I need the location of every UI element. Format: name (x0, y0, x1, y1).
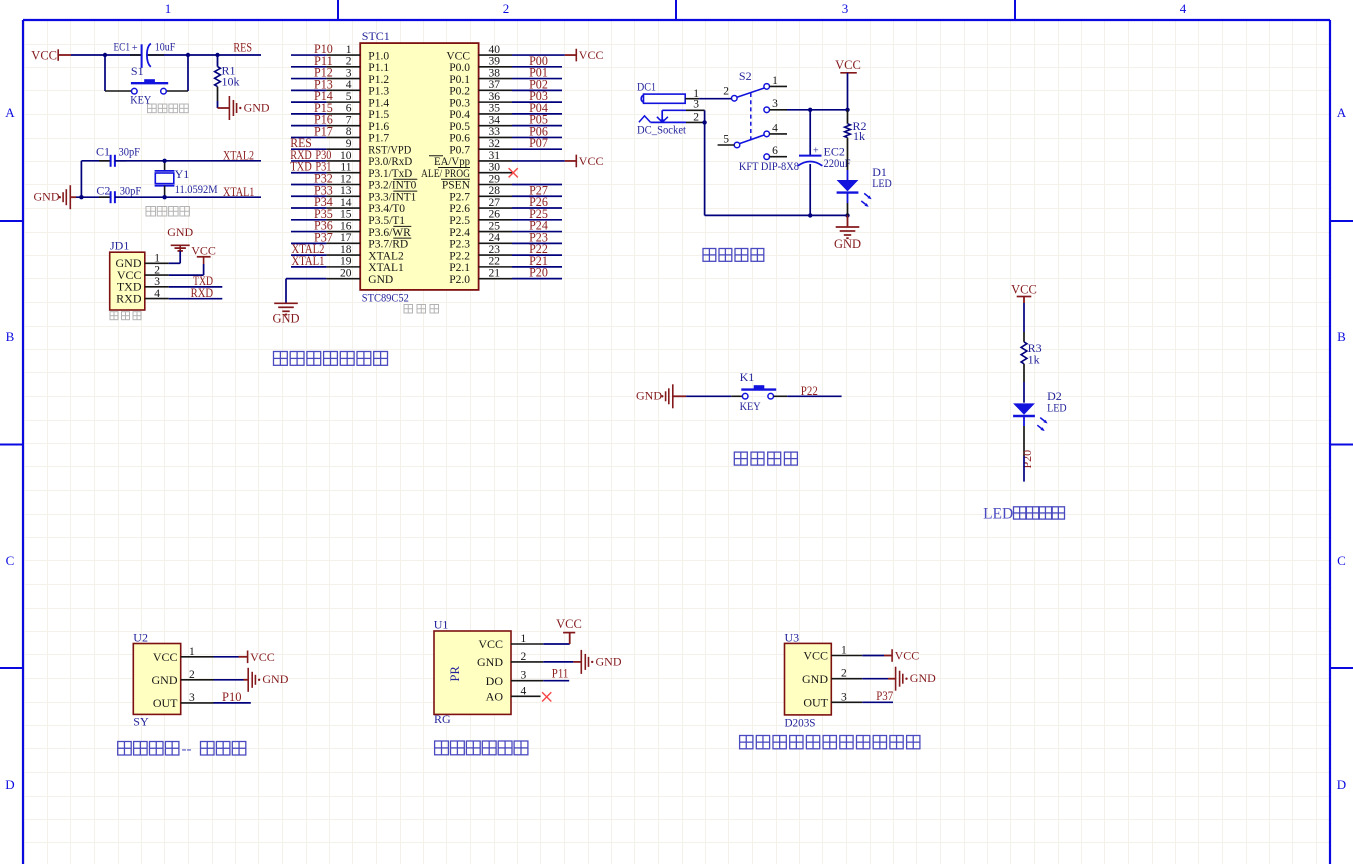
svg-text:P2.5: P2.5 (449, 215, 470, 227)
wire U2 pin2 to GND (214, 679, 244, 681)
LED D1 (837, 165, 892, 215)
power port GND (U1) (573, 650, 621, 674)
svg-text:22: 22 (489, 256, 501, 268)
svg-text:20: 20 (340, 267, 352, 279)
svg-text:3: 3 (346, 67, 352, 79)
svg-text:VCC: VCC (1011, 283, 1037, 297)
svg-text:RST/VPD: RST/VPD (368, 144, 411, 156)
title 单片机最小系统 (274, 352, 288, 366)
svg-text:GND: GND (596, 654, 622, 668)
svg-text:VCC: VCC (446, 50, 470, 62)
svg-text:3: 3 (693, 99, 699, 111)
svg-text:21: 21 (489, 267, 501, 279)
svg-text:GND: GND (802, 672, 828, 686)
resistor R3 1k (1021, 332, 1042, 382)
junction dot DC1 pin2 (702, 120, 706, 124)
svg-text:2: 2 (693, 111, 699, 123)
title LED灯电路 (983, 505, 1064, 522)
no-connect X on U1 pin4 (542, 692, 551, 701)
svg-text:3: 3 (154, 276, 160, 288)
svg-text:4: 4 (154, 288, 160, 300)
svg-text:DC_Socket: DC_Socket (637, 122, 687, 136)
svg-text:30: 30 (489, 162, 501, 174)
svg-text:P2.0: P2.0 (449, 274, 470, 286)
svg-text:40: 40 (489, 44, 501, 56)
svg-text:P37: P37 (876, 689, 893, 703)
svg-text:7: 7 (346, 114, 352, 126)
svg-text:ALE/ PROG: ALE/ PROG (421, 168, 470, 180)
svg-text:P1.2: P1.2 (368, 74, 389, 86)
svg-text:2: 2 (189, 669, 195, 681)
svg-text:RXD: RXD (116, 292, 142, 306)
svg-text:1: 1 (189, 646, 195, 658)
svg-text:EC1: EC1 (114, 40, 131, 54)
svg-text:VCC: VCC (835, 58, 861, 72)
svg-text:C: C (6, 553, 15, 568)
wire XTAL2 (115, 160, 261, 162)
svg-text:GND: GND (167, 225, 193, 239)
svg-text:P20: P20 (529, 266, 548, 280)
title 电源电路 (703, 249, 716, 262)
svg-text:25: 25 (489, 220, 501, 232)
capacitor EC1 10uF (114, 40, 176, 68)
svg-text:P2.2: P2.2 (449, 250, 470, 262)
svg-text:U3: U3 (785, 630, 800, 644)
svg-text:2: 2 (723, 86, 729, 98)
svg-text:3: 3 (772, 98, 778, 110)
svg-text:P2.1: P2.1 (449, 262, 470, 274)
pins 1-4 of JD1 (145, 253, 169, 300)
wire U3 pin3 P37 (862, 701, 893, 703)
svg-text:+: + (813, 146, 819, 157)
ground symbol below MCU (272, 303, 299, 325)
svg-text:P2.4: P2.4 (449, 227, 470, 239)
junction dots on RES wire (103, 53, 220, 57)
svg-text:24: 24 (489, 232, 501, 244)
power port VCC (U3) (884, 649, 919, 663)
svg-text:P3.2/INT0: P3.2/INT0 (368, 180, 416, 192)
power port GND (U3) (888, 667, 936, 691)
switch S2 KFT DIP-8X8 (718, 69, 799, 173)
svg-text:XTAL1: XTAL1 (223, 185, 254, 199)
svg-text:P1.3: P1.3 (368, 86, 389, 98)
crystal Y1 11.0592M (155, 161, 218, 197)
svg-text:GND: GND (834, 237, 861, 251)
wire DC1 pin3 to pin2 and bottom rail (705, 110, 848, 215)
svg-text:32: 32 (489, 138, 501, 150)
svg-text:U1: U1 (434, 618, 449, 632)
svg-text:10: 10 (340, 150, 352, 162)
power port VCC (U2) (239, 650, 275, 664)
svg-text:P2.7: P2.7 (449, 191, 470, 203)
svg-text:1k: 1k (853, 129, 865, 143)
svg-text:DO: DO (486, 674, 504, 688)
svg-text:23: 23 (489, 244, 501, 256)
svg-text:1: 1 (841, 645, 847, 657)
svg-text:P07: P07 (529, 136, 548, 150)
svg-text:TXD: TXD (290, 160, 312, 174)
ground GND (power circuit) (834, 215, 861, 251)
resistor R1 10k (215, 55, 240, 108)
svg-text:VCC: VCC (579, 154, 604, 168)
svg-text:12: 12 (340, 173, 352, 185)
svg-text:AO: AO (486, 690, 504, 704)
power port VCC near JD1 (191, 244, 216, 264)
svg-text:VCC: VCC (803, 649, 828, 663)
resistor R2 1k (845, 110, 867, 180)
svg-text:2: 2 (521, 651, 527, 663)
svg-text:19: 19 (340, 256, 352, 268)
svg-text:P20: P20 (1020, 450, 1034, 469)
power port VCC (pin31) (565, 154, 604, 168)
svg-text:2: 2 (841, 668, 847, 680)
svg-text:P1.4: P1.4 (368, 97, 389, 109)
svg-text:OUT: OUT (803, 695, 828, 709)
svg-text:A: A (1337, 105, 1347, 120)
MCU left pin name overlines (393, 179, 417, 238)
svg-text:VCC: VCC (31, 48, 57, 62)
svg-text:GND: GND (368, 274, 393, 286)
power port VCC (reset circuit) (31, 48, 71, 62)
svg-text:P2.3: P2.3 (449, 239, 470, 251)
wire K1 to P22 (787, 395, 841, 397)
svg-text:C1: C1 (96, 144, 110, 158)
svg-text:P2.6: P2.6 (449, 203, 470, 215)
svg-text:P0.3: P0.3 (449, 97, 470, 109)
svg-text:11: 11 (340, 162, 351, 174)
wire U1 pin3 P11 (543, 680, 569, 682)
svg-text:18: 18 (340, 244, 352, 256)
svg-text:P0.1: P0.1 (449, 74, 470, 86)
svg-text:--: -- (182, 742, 192, 758)
svg-text:34: 34 (489, 114, 501, 126)
svg-text:LED: LED (872, 176, 892, 190)
junction dots on bottom rail (808, 213, 850, 217)
svg-text:Y1: Y1 (175, 167, 190, 181)
svg-text:XTAL2: XTAL2 (223, 148, 254, 162)
wire GND to K1 (686, 395, 731, 397)
svg-text:K1: K1 (740, 370, 755, 384)
svg-text:10uF: 10uF (155, 40, 176, 54)
svg-text:37: 37 (489, 79, 501, 91)
capacitor EC2 220uF (798, 110, 851, 216)
svg-text:A: A (5, 105, 15, 120)
svg-text:3: 3 (841, 691, 847, 703)
svg-text:1: 1 (346, 44, 352, 56)
junction dots (crystal) (79, 159, 167, 200)
power port VCC (LED circuit) (1011, 283, 1037, 303)
svg-text:LED: LED (1047, 401, 1067, 415)
svg-text:P3.5/T1: P3.5/T1 (368, 215, 405, 227)
net labels XTAL2 XTAL1 (292, 242, 325, 268)
svg-text:1k: 1k (1028, 352, 1040, 366)
svg-text:VCC: VCC (250, 650, 275, 664)
svg-text:26: 26 (489, 209, 501, 221)
capacitor C1 30pF (96, 144, 140, 166)
wire VCC to R3 (1023, 303, 1025, 332)
svg-text:RXD: RXD (191, 286, 214, 300)
wires on MCU right pins (512, 55, 565, 279)
overlines EA PSEN PROG (429, 156, 470, 180)
svg-text:PSEN: PSEN (442, 180, 471, 192)
svg-text:16: 16 (340, 220, 352, 232)
U1 pins 1-4 (511, 633, 543, 697)
svg-text:VCC: VCC (153, 650, 178, 664)
svg-text:1: 1 (521, 633, 527, 645)
svg-text:1: 1 (165, 1, 172, 16)
wire VCC to RES net (71, 54, 261, 56)
svg-text:P0.7: P0.7 (449, 144, 470, 156)
connector JD1 (110, 238, 145, 310)
gray annotation 单片机 (404, 305, 413, 314)
svg-text:P3.7/RD: P3.7/RD (368, 239, 408, 251)
power port GND above JD1 (167, 225, 193, 252)
svg-text:14: 14 (340, 197, 352, 209)
svg-text:OUT: OUT (153, 696, 178, 710)
power port VCC (pin40) (565, 48, 604, 62)
svg-text:GND: GND (910, 671, 936, 685)
svg-text:VCC: VCC (579, 48, 604, 62)
svg-text:B: B (1337, 329, 1346, 344)
wire JD1 pin1 to GND (169, 251, 181, 263)
svg-text:31: 31 (489, 150, 501, 162)
svg-text:P1.0: P1.0 (368, 50, 389, 62)
MCU right pins 40-21 (421, 44, 512, 286)
svg-text:B: B (6, 329, 15, 344)
svg-text:VCC: VCC (478, 637, 503, 651)
svg-text:9: 9 (346, 138, 352, 150)
wire MCU pin20 to GND (286, 279, 326, 303)
svg-text:VCC: VCC (556, 617, 582, 631)
power port GND (U2) (244, 668, 289, 692)
svg-text:4: 4 (346, 79, 352, 91)
svg-text:KEY: KEY (740, 399, 761, 413)
wire U3 pin2 to GND (862, 678, 888, 680)
svg-text:5: 5 (346, 91, 352, 103)
module U1 RG (434, 618, 511, 726)
switch S1 KEY (105, 55, 188, 107)
net labels P00-P07 (529, 54, 549, 150)
net labels P10-P17 (314, 42, 334, 138)
svg-text:VCC: VCC (191, 244, 216, 258)
svg-text:10k: 10k (222, 74, 240, 88)
svg-text:4: 4 (772, 122, 778, 134)
svg-text:XTAL1: XTAL1 (368, 262, 404, 274)
svg-text:S2: S2 (739, 69, 752, 83)
svg-text:GND: GND (636, 389, 662, 403)
wire D2 to P20 (1023, 456, 1025, 482)
svg-text:28: 28 (489, 185, 501, 197)
svg-text:8: 8 (346, 126, 352, 138)
net labels P27-P20 (529, 183, 549, 279)
power port VCC (power circuit) (835, 58, 861, 110)
svg-text:KFT DIP-8X8: KFT DIP-8X8 (739, 159, 799, 173)
svg-text:P3.6/WR: P3.6/WR (368, 227, 411, 239)
junction dots on VCC node (808, 108, 850, 112)
svg-text:4: 4 (521, 685, 527, 697)
wires on MCU left pins (291, 55, 326, 267)
svg-text:D: D (1337, 777, 1346, 792)
svg-text:EA/Vpp: EA/Vpp (434, 156, 470, 168)
wire GND to C1/C2 (76, 161, 111, 197)
svg-text:P1.1: P1.1 (368, 62, 389, 74)
svg-text:XTAL1: XTAL1 (292, 254, 325, 268)
svg-text:P0.6: P0.6 (449, 133, 470, 145)
svg-text:+: + (132, 43, 138, 54)
title 光敏检测模块 (435, 741, 449, 755)
svg-text:P10: P10 (222, 690, 242, 704)
net labels TXD P31 (pin11) (290, 160, 331, 174)
svg-text:6: 6 (346, 103, 352, 115)
net labels RXD P30 (pin10) (290, 148, 331, 162)
svg-text:13: 13 (340, 185, 352, 197)
svg-text:36: 36 (489, 91, 501, 103)
svg-text:GND: GND (477, 655, 503, 669)
svg-text:GND: GND (244, 100, 270, 114)
svg-text:27: 27 (489, 197, 501, 209)
svg-text:2: 2 (154, 264, 160, 276)
gray annotation 晶振电路 (146, 207, 156, 217)
svg-text:P0.4: P0.4 (449, 109, 470, 121)
U2 pins 1-3 (181, 646, 214, 704)
power port GND (key circuit) (636, 384, 686, 408)
svg-text:P1.5: P1.5 (368, 109, 389, 121)
module U3 D203S (785, 630, 832, 729)
svg-text:GND: GND (262, 672, 288, 686)
svg-text:17: 17 (340, 232, 352, 244)
svg-text:STC1: STC1 (362, 29, 390, 43)
MCU U: STC1 STC89C52 body (360, 29, 478, 305)
svg-text:4: 4 (1180, 1, 1187, 16)
svg-text:33: 33 (489, 126, 501, 138)
wire TXD (169, 286, 223, 288)
svg-text:P3.0/RxD: P3.0/RxD (368, 156, 412, 168)
svg-text:P3.3/INT1: P3.3/INT1 (368, 191, 416, 203)
wire U2 pin3 P10 (214, 702, 251, 704)
wire JD1 pin2 to VCC (169, 264, 204, 275)
svg-text:GND: GND (272, 311, 299, 325)
svg-text:P17: P17 (314, 124, 333, 138)
svg-text:29: 29 (489, 173, 501, 185)
svg-text:RG: RG (434, 712, 451, 726)
title 按键电路 (734, 452, 747, 465)
svg-text:3: 3 (189, 692, 195, 704)
svg-text:GND: GND (152, 673, 178, 687)
power port GND (crystal circuit) (34, 185, 77, 209)
svg-text:JD1: JD1 (110, 238, 129, 252)
svg-text:D: D (5, 777, 14, 792)
svg-text:P3.1/TxD: P3.1/TxD (368, 168, 412, 180)
module U2 SY (133, 631, 180, 729)
no-connect X on pin30 (509, 168, 518, 177)
MCU left pins 1-20 (326, 44, 416, 286)
svg-text:S1: S1 (131, 64, 144, 78)
svg-text:P1.7: P1.7 (368, 133, 389, 145)
wire S2 pin3 to VCC rail (787, 109, 848, 111)
svg-text:30pF: 30pF (119, 144, 141, 158)
svg-text:15: 15 (340, 209, 352, 221)
svg-text:P11: P11 (552, 667, 569, 681)
capacitor C2 30pF (96, 183, 141, 203)
title 声音检测--数字量 (118, 742, 246, 758)
svg-text:35: 35 (489, 103, 501, 115)
svg-text:3: 3 (521, 670, 527, 682)
svg-text:38: 38 (489, 67, 501, 79)
svg-text:39: 39 (489, 56, 501, 68)
svg-text:3: 3 (842, 1, 849, 16)
svg-text:C: C (1337, 553, 1346, 568)
wire DC1 pin1 to S2 (699, 98, 731, 100)
svg-text:D203S: D203S (785, 716, 816, 730)
switch K1 KEY (731, 370, 787, 413)
wire RXD (169, 298, 223, 300)
svg-text:VCC: VCC (895, 649, 920, 663)
svg-text:P0.5: P0.5 (449, 121, 470, 133)
svg-text:6: 6 (772, 145, 778, 157)
svg-text:1: 1 (154, 253, 160, 265)
DC socket DC1 (637, 80, 705, 137)
svg-text:11.0592M: 11.0592M (175, 182, 218, 196)
svg-text:C2: C2 (96, 183, 110, 197)
wire U1 pin1 to VCC (543, 643, 569, 645)
svg-text:P22: P22 (801, 384, 818, 398)
title 人体热释电红外感应模块 (740, 736, 753, 749)
wire XTAL1 (115, 196, 261, 198)
svg-text:2: 2 (346, 56, 352, 68)
ground GND (reset circuit) (218, 96, 270, 120)
svg-text:SY: SY (133, 714, 149, 728)
svg-text:STC89C52: STC89C52 (362, 290, 409, 304)
svg-text:PR: PR (448, 666, 462, 682)
svg-text:DC1: DC1 (637, 80, 656, 94)
wire R3 to D2 (1023, 382, 1025, 403)
LED D2 (1013, 389, 1067, 456)
svg-text:U2: U2 (133, 631, 148, 645)
wire U2 pin1 to VCC (214, 656, 239, 658)
svg-text:1: 1 (772, 75, 778, 87)
svg-text:P3.4/T0: P3.4/T0 (368, 203, 405, 215)
svg-text:LED: LED (983, 505, 1013, 522)
gray annotation 下载口 (110, 312, 118, 320)
net labels P32-P37 (314, 171, 334, 244)
svg-text:GND: GND (34, 190, 60, 204)
wire U3 pin1 to VCC (862, 655, 884, 657)
svg-text:2: 2 (503, 1, 510, 16)
U3 pins 1-3 (831, 645, 862, 704)
svg-text:5: 5 (723, 133, 729, 145)
svg-text:P1.6: P1.6 (368, 121, 389, 133)
gray annotation 按键复位 (148, 104, 157, 113)
svg-text:P0.2: P0.2 (449, 86, 470, 98)
power port VCC (U1) (556, 617, 582, 644)
svg-text:P0.0: P0.0 (449, 62, 470, 74)
svg-text:XTAL2: XTAL2 (368, 250, 404, 262)
svg-text:30pF: 30pF (120, 183, 142, 197)
wire U1 pin2 to GND (543, 661, 573, 663)
svg-text:RES: RES (233, 41, 252, 55)
